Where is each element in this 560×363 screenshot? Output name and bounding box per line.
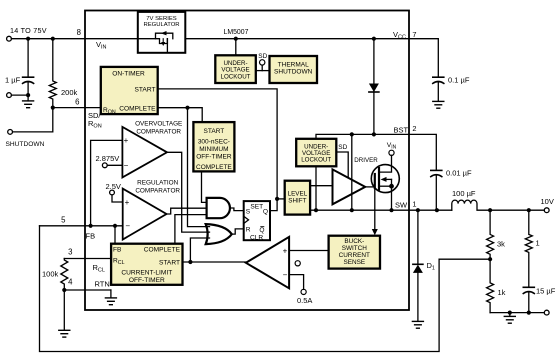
svg-text:2: 2 (412, 124, 416, 133)
amplifier driver (333, 169, 366, 204)
svg-text:14 TO 75V: 14 TO 75V (10, 26, 47, 35)
wire VCC rail regulator to pin 7 (185, 38, 409, 40)
node 2.875V reference (102, 163, 107, 168)
node SD bubble (260, 60, 265, 65)
node bubble (295, 261, 300, 266)
svg-text:FB: FB (86, 232, 96, 241)
wire rail through regulator with dip (138, 39, 167, 44)
wire pin 4 RTN (64, 289, 111, 291)
svg-text:LOCKOUT: LOCKOUT (301, 157, 331, 164)
svg-text:1: 1 (536, 239, 540, 248)
svg-text:7: 7 (412, 30, 416, 39)
svg-text:SD: SD (258, 53, 267, 60)
mosfet drain (379, 155, 392, 172)
svg-text:START: START (134, 87, 155, 94)
wire regulation output to AND (167, 208, 207, 214)
junction 15uF bottom (527, 311, 531, 315)
junction diode BST (372, 132, 376, 136)
svg-text:OFF-TIMER: OFF-TIMER (129, 277, 165, 284)
wire UVLO2 SD to driver (336, 152, 348, 177)
svg-text:BST: BST (394, 126, 409, 135)
junction 3k top (488, 208, 492, 212)
wire regulator internal down (166, 39, 168, 52)
junction FB overvoltage branch (89, 224, 93, 228)
svg-text:3: 3 (68, 248, 72, 257)
wire CL start from comparator (183, 261, 246, 263)
junction 200k top (51, 37, 55, 41)
svg-text:LOCKOUT: LOCKOUT (221, 74, 251, 81)
svg-text:Q: Q (263, 209, 268, 216)
svg-text:OFF-TIMER: OFF-TIMER (196, 154, 232, 161)
regulator 7V series box (138, 12, 186, 53)
wire to level shift (277, 198, 285, 200)
svg-text:R: R (246, 227, 251, 234)
svg-text:1 µF: 1 µF (5, 76, 21, 85)
svg-text:RTN: RTN (95, 280, 110, 289)
svg-text:1k: 1k (498, 288, 506, 297)
junction source SW (389, 208, 393, 212)
junction ground output (508, 311, 512, 315)
svg-text:LEVEL: LEVEL (288, 191, 308, 198)
svg-text:SW: SW (395, 201, 408, 210)
wire diode D2 vertical (373, 39, 375, 135)
wire UVLO2 bottom to SW rail (315, 166, 317, 210)
wire sense to comparator (290, 250, 328, 252)
transistor gate arrow (162, 39, 164, 43)
wire pin2 external BST (409, 134, 436, 169)
wire FB pin5 rail (40, 225, 123, 227)
junction CL start branch (188, 260, 192, 264)
wire current sense tap (374, 188, 376, 230)
svg-text:COMPLETE: COMPLETE (144, 247, 181, 254)
wire SW rail (310, 209, 409, 211)
wire overvoltage output to OR (167, 152, 210, 232)
svg-text:CLR: CLR (250, 234, 263, 241)
wire on-timer COMPLETE output (158, 108, 203, 122)
inductor 100uF (452, 200, 545, 210)
wire driver to gate (365, 186, 374, 188)
junction pin6 shutdown (51, 106, 55, 110)
svg-text:3k: 3k (497, 240, 505, 249)
transistor pass device loop (156, 33, 173, 39)
svg-text:10V: 10V (541, 197, 554, 206)
junction 100k bottom (62, 288, 66, 292)
junction input cap (26, 37, 30, 41)
wire latch Q output (270, 199, 277, 211)
gate OR (206, 224, 232, 244)
wire OR output to latch R (232, 229, 244, 234)
svg-text:FB: FB (113, 247, 122, 254)
junction FB current-limit branch (113, 224, 117, 228)
svg-text:CURRENT: CURRENT (339, 252, 370, 259)
svg-text:300-nSEC-: 300-nSEC- (198, 139, 230, 146)
svg-text:−: − (283, 270, 288, 279)
wire CL complete to AND input (175, 215, 207, 244)
block UVLO2 under-voltage lockout (296, 139, 336, 167)
latch SR (244, 201, 270, 240)
node terminal SHUTDOWN (8, 130, 13, 135)
resistor 3k (487, 210, 494, 259)
capacitor 1uF (27, 40, 29, 76)
svg-text:REGULATOR: REGULATOR (143, 22, 179, 28)
node VIN bubble (389, 150, 394, 155)
svg-text:SET: SET (250, 204, 263, 211)
block level shift (285, 181, 310, 215)
wire UVLO1 top stub (235, 39, 237, 56)
junction FB divider (488, 257, 492, 261)
svg-text:SD: SD (338, 144, 347, 151)
capacitor 15uF (523, 286, 534, 288)
transistor buck switch MOSFET (371, 165, 399, 193)
svg-text:OVERVOLTAGE: OVERVOLTAGE (135, 121, 182, 128)
wire FB to current-limit off-timer (114, 226, 116, 244)
node 0.5A reference (301, 289, 306, 294)
wire BST rail (316, 134, 409, 138)
junction 0.01uF (435, 208, 439, 212)
svg-text:200k: 200k (61, 88, 78, 97)
svg-text:+: + (283, 246, 288, 255)
svg-text:0.01 µF: 0.01 µF (446, 169, 472, 178)
latch Qbar overline (260, 226, 264, 228)
svg-text:100k: 100k (42, 270, 59, 279)
junction driver power (350, 132, 354, 136)
svg-text:CURRENT-LIMIT: CURRENT-LIMIT (121, 270, 172, 277)
resistor 100k (61, 259, 68, 291)
junction on-timer complete branch (185, 106, 189, 110)
resistor 1k (487, 259, 494, 312)
svg-text:COMPLETE: COMPLETE (196, 164, 232, 171)
svg-text:SHUTDOWN: SHUTDOWN (274, 68, 313, 75)
svg-text:BUCK-: BUCK- (344, 238, 364, 245)
svg-text:Q: Q (259, 227, 264, 234)
junction UVLO1 tap (234, 37, 238, 41)
mosfet body arrow (385, 178, 392, 180)
mosfet source (379, 185, 392, 187)
wire UVLO1 to thermal shutdown (256, 70, 270, 72)
wire shutdown (13, 108, 53, 132)
wire driver power vertical (351, 134, 353, 210)
svg-text:DRIVER: DRIVER (354, 157, 378, 164)
svg-text:0.1 µF: 0.1 µF (448, 76, 470, 85)
diode D1 freewheel (417, 210, 419, 264)
ground 100k (59, 329, 70, 331)
svg-text:+: + (125, 198, 130, 207)
svg-text:REGULATION: REGULATION (137, 180, 178, 187)
svg-text:SHIFT: SHIFT (288, 198, 306, 205)
gate AND (207, 198, 230, 218)
wire input rail to pin 8 (11, 38, 138, 40)
node terminal input return (7, 93, 12, 98)
svg-text:ON-TIMER: ON-TIMER (112, 71, 145, 78)
wire pin1 SW external (409, 209, 452, 211)
junction Q and timer start (275, 197, 279, 201)
svg-text:SHUTDOWN: SHUTDOWN (6, 141, 45, 148)
comparator regulation (123, 189, 167, 240)
svg-text:8: 8 (77, 28, 81, 37)
comparator overvoltage (122, 127, 167, 177)
junction driver SW (350, 208, 354, 212)
svg-text:START: START (204, 128, 225, 135)
wire 100k to ground (63, 290, 65, 330)
wire complete to OR gate input (188, 108, 210, 227)
svg-text:MINIMUM: MINIMUM (199, 146, 228, 153)
ground RTN internal (110, 290, 112, 298)
wire pin7 external (409, 39, 438, 77)
wire FB return long (40, 226, 491, 352)
wire minus input to 0.5A (289, 275, 304, 290)
wire output bottom rail (490, 312, 544, 314)
svg-text:15 µF: 15 µF (536, 287, 556, 296)
svg-text:100 µF: 100 µF (452, 189, 476, 198)
wire overvoltage + input from FB (91, 140, 123, 225)
ground input (23, 100, 34, 102)
svg-text:SWITCH: SWITCH (342, 245, 368, 252)
resistor 1ohm (525, 210, 532, 286)
svg-text:SENSE: SENSE (343, 259, 365, 266)
block buck-switch current sense (329, 236, 380, 269)
block ON-TIMER (101, 67, 158, 114)
svg-text:+: + (124, 136, 129, 145)
wire pin 3 RCL (64, 258, 111, 260)
block 300ns minimum off-timer (193, 122, 234, 171)
svg-text:4: 4 (68, 278, 73, 287)
wire pin 6 (53, 107, 101, 109)
svg-text:COMPLETE: COMPLETE (119, 105, 156, 112)
wire AND output to latch S (230, 208, 244, 211)
ground 0.1uF (433, 100, 444, 102)
capacitor 0.01uF (431, 169, 442, 171)
ground output (509, 313, 511, 317)
node terminal 10V (544, 208, 549, 213)
latch clock triangle (244, 216, 249, 223)
block thermal shutdown (270, 56, 318, 83)
svg-text:6: 6 (75, 98, 79, 107)
svg-text:5: 5 (61, 216, 66, 225)
node terminal output return (544, 310, 549, 315)
resistor 200k (49, 39, 56, 108)
svg-text:−: − (124, 161, 129, 170)
svg-text:S: S (246, 209, 251, 216)
junction UVLO2 SW (314, 208, 318, 212)
svg-text:COMPARATOR: COMPARATOR (135, 188, 180, 195)
junction D1 (416, 208, 420, 212)
wire level shift to driver (310, 185, 332, 187)
wire start branch to OR input (190, 238, 209, 262)
diode D2 bootstrap (369, 84, 379, 93)
svg-text:2.875V: 2.875V (96, 154, 120, 163)
svg-text:0.5A: 0.5A (297, 296, 312, 305)
svg-text:START: START (159, 260, 180, 267)
block UVLO1 under-voltage lockout (215, 55, 256, 83)
svg-text:2.5V: 2.5V (106, 182, 121, 191)
wire on-timer START output (158, 89, 277, 199)
wire 300ns complete to AND input (202, 171, 207, 202)
IC boundary box LM5007 (85, 11, 409, 311)
svg-text:−: − (125, 222, 130, 231)
comparator current-limit (246, 237, 289, 288)
junction bootstrap diode top (372, 37, 376, 41)
capacitor 0.1uF (433, 76, 444, 78)
junction cap bottom (26, 93, 30, 97)
node 2.5V reference (110, 190, 115, 195)
wire terminal to cap bottom (11, 94, 28, 96)
ground D1 (412, 320, 423, 322)
junction 1ohm top (527, 208, 531, 212)
node input terminal 14-75V (7, 36, 12, 41)
svg-text:LM5007: LM5007 (224, 29, 249, 36)
svg-text:1: 1 (412, 200, 416, 209)
svg-text:COMPARATOR: COMPARATOR (136, 129, 181, 136)
block current-limit off-timer (111, 244, 182, 285)
